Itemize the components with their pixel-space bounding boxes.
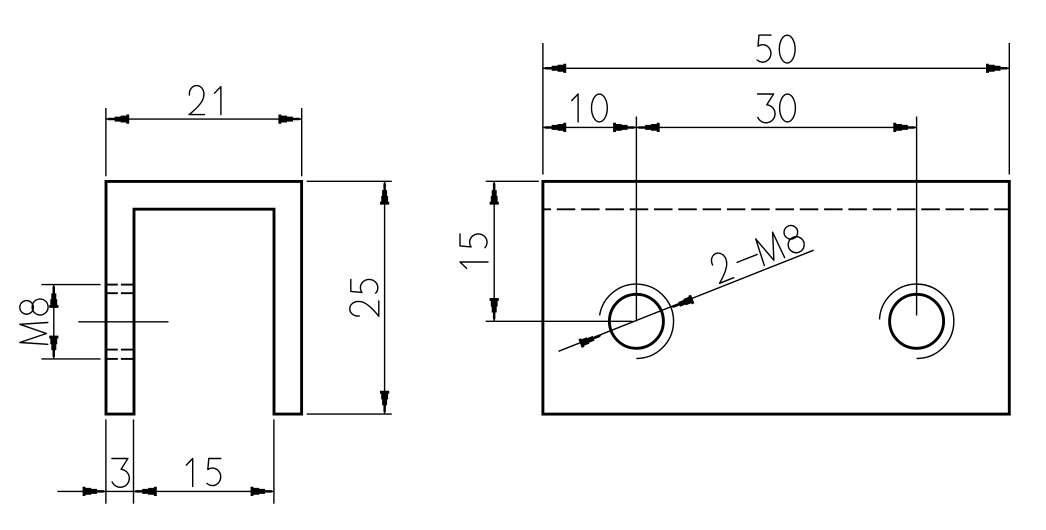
dimension M8: text — [20, 299, 48, 344]
dimension M8: arrowheads — [49, 285, 58, 308]
dimension 10: arrowheads — [543, 123, 566, 132]
leader arrowhead upper-right — [672, 295, 695, 308]
dimension 15 (right view): extension line — [486, 180, 539, 182]
dimension 3: outside arrowhead — [83, 487, 106, 496]
hole 2: vertical centerline — [916, 117, 918, 316]
dimension 25: text — [350, 279, 379, 316]
dimension 15: text — [186, 459, 221, 487]
hole 2: tap drill circle — [890, 294, 944, 348]
dimensions 3 and 15: dimension line — [57, 490, 274, 492]
hole centerline (left view) — [78, 321, 168, 323]
dimension 30: dimension line — [636, 126, 916, 128]
leader line for 2-M8 — [559, 250, 814, 351]
hole 1: tap drill circle — [609, 294, 663, 348]
hole 1: vertical centerline — [635, 117, 637, 322]
dimension 10: text — [572, 94, 608, 122]
dimension 21: dimension line — [106, 118, 302, 120]
dimensions 3 and 15: extension lines — [105, 419, 107, 503]
right view: plate outline — [543, 181, 1009, 414]
2-M8 text — [709, 222, 807, 284]
dimension 21: extension lines — [105, 108, 107, 176]
dimension 50: extension lines — [542, 43, 544, 175]
dimension 25: dimension line — [384, 181, 386, 414]
dimension 10: dimension line — [543, 126, 637, 128]
dimension 21: text — [189, 86, 221, 115]
dimension 15 (right view): dimension line — [493, 181, 495, 321]
dimension M8: dimension line — [53, 285, 55, 359]
hidden line (slot bottom) — [543, 208, 1009, 210]
dimension 25: extension lines — [307, 180, 392, 182]
dimension 21: arrowheads — [106, 115, 129, 124]
dimension 15 (right view): text — [460, 234, 488, 269]
dimension 25: arrowheads — [380, 182, 389, 205]
hole 1: horizontal centerline / 15 extension — [486, 320, 633, 322]
dimension 30: text — [758, 94, 796, 123]
left view: U-channel outline — [106, 181, 302, 414]
dimension 50: text — [757, 35, 795, 63]
dimension 15: arrowheads — [134, 487, 157, 496]
dimension 50: dimension line — [543, 67, 1009, 69]
dimension M8: extension lines — [41, 284, 100, 286]
leader arrowhead lower-left — [578, 335, 601, 348]
dimension 50: arrowheads — [543, 64, 566, 73]
dimension 30: arrowheads — [637, 123, 660, 132]
dimension 15 (right view): arrowheads — [490, 182, 499, 205]
hidden thread lines in left leg (M8 hole) — [106, 284, 118, 286]
hole 1: thread major-dia arc — [600, 284, 674, 358]
hole 2: thread major-dia arc — [880, 284, 954, 358]
dimension 3: text — [112, 459, 129, 488]
